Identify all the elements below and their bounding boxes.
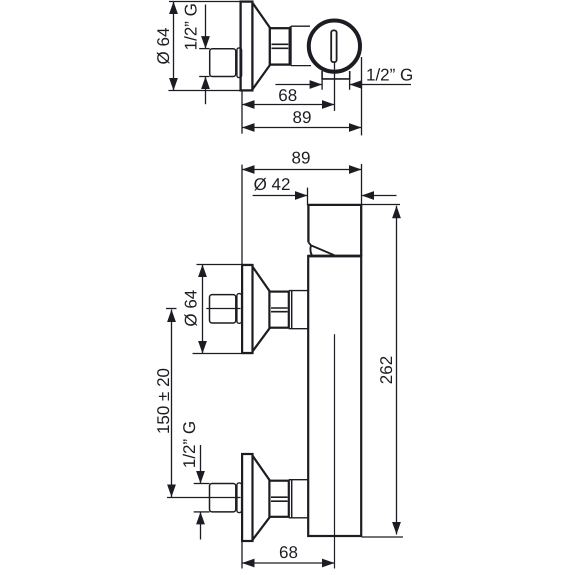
svg-text:89: 89 <box>292 149 311 168</box>
svg-text:150 ± 20: 150 ± 20 <box>154 368 173 434</box>
svg-text:89: 89 <box>293 108 312 127</box>
svg-text:Ø 64: Ø 64 <box>181 290 200 327</box>
svg-text:1/2” G: 1/2” G <box>181 3 200 50</box>
svg-text:68: 68 <box>278 86 297 105</box>
svg-text:68: 68 <box>279 543 298 562</box>
svg-text:1/2” G: 1/2” G <box>180 421 199 468</box>
svg-text:Ø 64: Ø 64 <box>154 28 173 65</box>
svg-text:262: 262 <box>377 356 396 384</box>
svg-text:Ø 42: Ø 42 <box>254 175 291 194</box>
svg-text:1/2” G: 1/2” G <box>366 66 413 85</box>
